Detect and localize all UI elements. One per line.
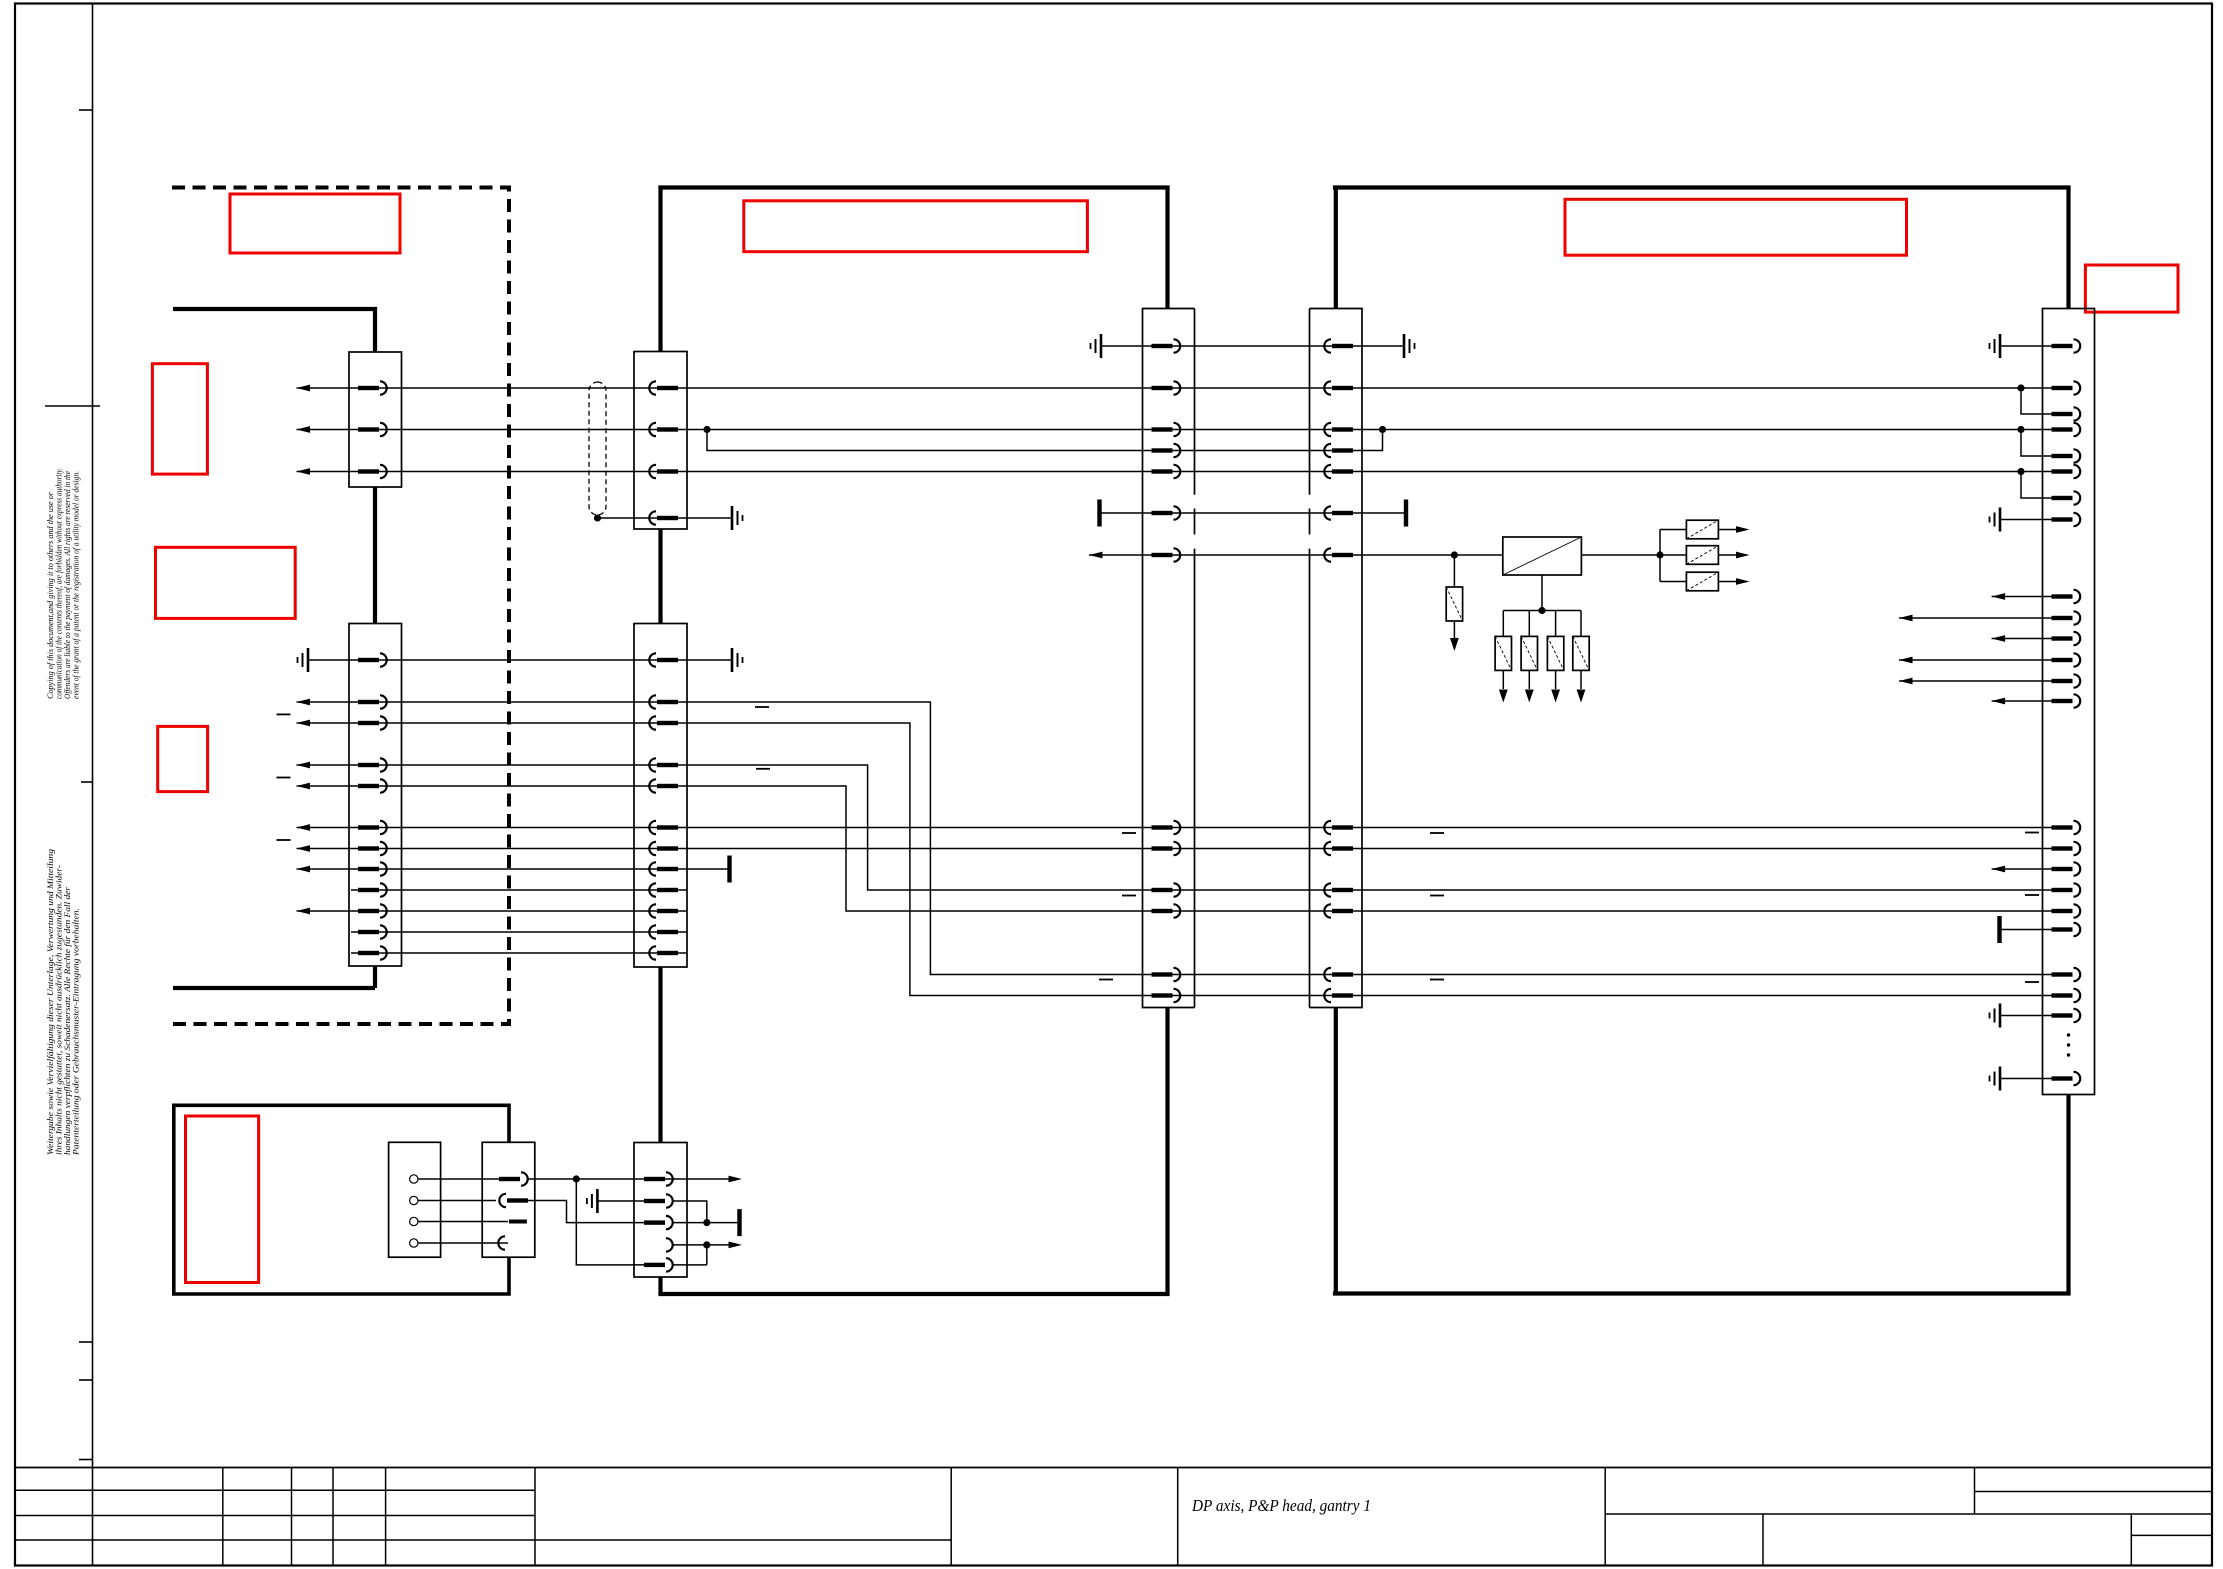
X6 left edge seg 1 bbox=[1309, 309, 1311, 495]
right module left edge seg 1 (into X6) bbox=[1334, 188, 1338, 309]
right module top edge bbox=[1333, 185, 2071, 189]
wire net B (row 429.5) X1-X3-X5-X6-X8 bbox=[297, 429, 2057, 431]
arrow down, F7 output bbox=[1551, 690, 1560, 703]
wire net E: row 723 stepping down to row 995.5 bbox=[297, 723, 2057, 996]
wire X7a pin1 to X7b pin1 (row 1179) bbox=[529, 1178, 738, 1180]
svg-text:event of the grant of a patent: event of the grant of a patent or the re… bbox=[72, 471, 81, 699]
wire net G: row 786 stepping down to row 911 bbox=[297, 786, 2057, 911]
arrow right, F2 output bbox=[1736, 526, 1750, 533]
X8 pin row 429.5 bbox=[2052, 423, 2081, 436]
wire to fuse F4 bbox=[1660, 581, 1686, 583]
title block column divider x291 bbox=[291, 1468, 293, 1566]
wire to fuse F3 bbox=[1660, 554, 1686, 556]
X6 left edge seg 2 bbox=[1309, 509, 1311, 535]
wire row 346 ground link X5-X6 bbox=[1101, 345, 1404, 347]
connector X1 bbox=[349, 352, 402, 487]
X6 pin row 848.5 bbox=[1324, 842, 1353, 855]
X8 pin row 827.5 bbox=[2052, 821, 2081, 834]
wire X8 pin row 869 outgoing bbox=[1992, 868, 2056, 870]
red label box (left device B) bbox=[156, 547, 296, 618]
X7a pin row 1200 bbox=[499, 1194, 528, 1207]
wire down to fuse F6 bbox=[1528, 611, 1530, 637]
X5 pin row 450.5 bbox=[1152, 444, 1181, 457]
wire net I (row 848.5) X2-X4-X5-X6-X8 bbox=[297, 848, 2057, 850]
arrow, X8 row 596 bbox=[1992, 593, 2006, 600]
X6 pin row 429.5 bbox=[1324, 423, 1353, 436]
X1 pin row 388 bbox=[358, 381, 387, 394]
arrow, X8 row 681 bbox=[1899, 678, 1913, 685]
wire below fuse F8 bbox=[1580, 670, 1582, 689]
X7a pin row 1221 (pin without socket arc) bbox=[509, 1220, 527, 1224]
wire terminal 1 to X7a bbox=[418, 1178, 502, 1180]
left device boundary bottom run bbox=[173, 986, 375, 990]
jumper X8 pins row 429 to row 456 bbox=[2021, 430, 2056, 457]
ground, left of X2 row 660 bbox=[298, 648, 309, 672]
X8 pin row 414 bbox=[2052, 407, 2081, 420]
wire net J (row 869) X2-X4 to termination bbox=[297, 868, 729, 870]
wire net D: row 702 stepping down to row 974.5 bbox=[297, 702, 2057, 975]
X5 pin row 827.5 bbox=[1152, 821, 1181, 834]
X8 pin row 388 bbox=[2052, 381, 2081, 394]
shield drain wire to ground (row 518) bbox=[598, 517, 733, 519]
X6 pin row 346 bbox=[1324, 339, 1353, 352]
X6 left edge seg 3 bbox=[1309, 549, 1311, 1008]
ground, X8 row 519 bbox=[1990, 508, 2001, 532]
wire down to fuse F8 bbox=[1580, 611, 1582, 637]
X8 pin row 911 bbox=[2052, 904, 2081, 917]
X4 pin row 786 bbox=[649, 779, 678, 792]
connector X7a bbox=[482, 1142, 535, 1257]
X4 pin row 869 bbox=[649, 862, 678, 875]
wire loop from row 1179 down to X7b pin5 (row 1265) bbox=[576, 1179, 652, 1265]
X1 pin row 429.5 bbox=[358, 423, 387, 436]
frame left column divider bbox=[92, 4, 94, 1566]
X3 pin row 471.5 bbox=[649, 465, 678, 478]
junction X8 jumper row 388 bbox=[2017, 384, 2024, 391]
terminal T1.2 circle bbox=[410, 1196, 418, 1204]
X8 pin row 1015.5 bbox=[2052, 1009, 2081, 1022]
red label box (middle module) bbox=[744, 201, 1088, 252]
wire number label dash at (283.5,777.5) bbox=[277, 777, 291, 779]
wire X7b pin3 to termination bar bbox=[674, 1222, 738, 1224]
wire number label dash at (1106,979.5) bbox=[1099, 979, 1113, 981]
title block column divider x951 bbox=[950, 1468, 952, 1566]
X2 pin row 911 bbox=[358, 904, 387, 917]
svg-text:DP axis, P&P head, gantry 1: DP axis, P&P head, gantry 1 bbox=[1191, 1496, 1371, 1515]
X4 pin row 765 bbox=[649, 758, 678, 771]
X8 pin row 848.5 bbox=[2052, 842, 2081, 855]
title block column divider x222 bbox=[222, 1468, 224, 1566]
junction on net B at x1382 bbox=[1379, 426, 1386, 433]
X6 pin row 513 bbox=[1324, 506, 1353, 519]
red label box (cable W1, top left) bbox=[230, 194, 400, 253]
connector X2 bbox=[349, 624, 402, 967]
X8 pin row 456 bbox=[2052, 449, 2081, 462]
X8 pin row 498 bbox=[2052, 491, 2081, 504]
wire X7b pin5 right side bbox=[674, 1264, 707, 1266]
X8 pin row 618 bbox=[2052, 611, 2081, 624]
X6 pin row 388 bbox=[1324, 381, 1353, 394]
wire net C (row 471.5) X1-X3-X5-X6-X8 bbox=[297, 471, 2057, 473]
title block column divider x333 bbox=[332, 1468, 334, 1566]
title block lower divider x2131 bbox=[2130, 1514, 2132, 1566]
junction row 1222.6 bbox=[703, 1219, 710, 1226]
wire X8 pin row 596 outgoing bbox=[1992, 596, 2056, 598]
right module bottom edge bbox=[1333, 1291, 2071, 1295]
X5 pin row 429.5 bbox=[1152, 423, 1181, 436]
X5 pin row 995.5 bbox=[1152, 989, 1181, 1002]
X8 ellipsis dots (pins omitted) bbox=[2067, 1033, 2070, 1036]
title block right row line a bbox=[1975, 1491, 2213, 1493]
X5 pin row 388 bbox=[1152, 381, 1181, 394]
fuse F6 bbox=[1521, 636, 1537, 670]
X5 pin row 911 bbox=[1152, 904, 1181, 917]
fuse F5 bbox=[1495, 636, 1511, 670]
wire after fuse F2 bbox=[1718, 529, 1736, 531]
X5 pin row 346 bbox=[1152, 339, 1181, 352]
arrow, net H toward left device bbox=[297, 824, 311, 831]
X2 pin row 660 bbox=[358, 653, 387, 666]
wire number label dash at (1437,833) bbox=[1430, 832, 1444, 834]
wire terminal 2 to X7a bbox=[418, 1200, 496, 1202]
wire below fuse F6 bbox=[1528, 670, 1530, 689]
X5 right edge seg 2 bbox=[1194, 509, 1196, 535]
title block right row line c bbox=[2131, 1534, 2212, 1536]
X6 pin row 974.5 bbox=[1324, 968, 1353, 981]
X7b pin row 1245 (socket arc only) bbox=[666, 1238, 673, 1251]
wire X8 pin row 681 outgoing bbox=[1899, 680, 2056, 682]
X2 pin row 869 bbox=[358, 862, 387, 875]
wire below fuse F7 bbox=[1555, 670, 1557, 689]
middle module left edge seg 2 bbox=[658, 529, 662, 624]
X2 pin row 827.5 bbox=[358, 821, 387, 834]
X8 pin row 890 bbox=[2052, 883, 2081, 896]
middle module right edge seg 1 (into X5) bbox=[1165, 188, 1169, 309]
X6 pin row 995.5 bbox=[1324, 989, 1353, 1002]
wire X8 pin row 1078 to ground bbox=[2000, 1078, 2056, 1080]
wire X8 pin row 618 outgoing bbox=[1899, 617, 2056, 619]
fuse F3 bbox=[1686, 546, 1718, 565]
X7b pin row 1201 bbox=[644, 1194, 673, 1207]
X8 pin row 1078.5 bbox=[2052, 1072, 2081, 1085]
arrow, X8 row 701 bbox=[1992, 698, 2006, 705]
arrow, net F toward left device bbox=[297, 762, 311, 769]
title block column divider x535 bbox=[534, 1468, 536, 1566]
title block column divider x385 bbox=[385, 1468, 387, 1566]
wire below fuse F5 bbox=[1502, 670, 1504, 689]
X5 pin row 555 bbox=[1152, 548, 1181, 561]
wire net H (row 827.5) X2-X4-X5-X6-X8 bbox=[297, 827, 2057, 829]
fuse F2 bbox=[1686, 520, 1718, 539]
X6 pin row 450.5 bbox=[1324, 444, 1353, 457]
ground, X7b pin2 bbox=[587, 1189, 598, 1213]
X1 pin row 471.5 bbox=[358, 465, 387, 478]
wire net F: row 765 stepping down to row 890 bbox=[297, 765, 2057, 890]
arrow, X8 row 638 bbox=[1992, 635, 2006, 642]
arrow, supply row 555 toward left bbox=[1089, 552, 1103, 559]
junction row 1245 bbox=[703, 1241, 710, 1248]
X5 pin row 848.5 bbox=[1152, 842, 1181, 855]
title block lower divider x1763 bbox=[1762, 1514, 1764, 1566]
junction X8 jumper row 429 bbox=[2017, 426, 2024, 433]
wire X8 pin row 346 to ground bbox=[2000, 345, 2056, 347]
fuse F8 bbox=[1573, 636, 1589, 670]
wire net B paired branch to X5 pin (row 450.5) bbox=[707, 430, 1174, 451]
X4 pin row 702 bbox=[649, 695, 678, 708]
X3 pin row 429.5 bbox=[649, 423, 678, 436]
fuse F1 bbox=[1446, 587, 1462, 621]
frame reference tick y1459 bbox=[79, 1459, 93, 1461]
wire number label dash at (283.5,714.4) bbox=[277, 714, 291, 716]
arrow right, F3 output bbox=[1736, 552, 1750, 559]
wire down to fuse F1 bbox=[1453, 555, 1455, 587]
X8 pin row 929.5 bbox=[2052, 923, 2081, 936]
connector X5 (box with dashed screen gaps on right edge) bbox=[1143, 309, 1195, 1008]
title block top line bbox=[15, 1467, 2212, 1469]
ground, right of X6 row 346 bbox=[1404, 334, 1415, 358]
right module left edge seg 2 (below X6) bbox=[1334, 1008, 1338, 1294]
frame reference tick y406 bbox=[45, 405, 100, 407]
X7a pin row 1179 bbox=[499, 1172, 528, 1185]
wire row 932 X2-X4 stub bbox=[351, 931, 687, 933]
X8 pin row 701 bbox=[2052, 694, 2081, 707]
fuse F7 bbox=[1547, 636, 1563, 670]
middle module right edge seg 2 (below X5) bbox=[1165, 1008, 1169, 1295]
X8 pin row 974.5 bbox=[2052, 968, 2081, 981]
frame reference tick y110 bbox=[79, 109, 93, 111]
middle module top edge bbox=[658, 185, 1169, 189]
wire below fuse F1 bbox=[1453, 621, 1455, 649]
arrow, net E toward left device bbox=[297, 720, 311, 727]
ground, left of X5 row 346 bbox=[1091, 334, 1102, 358]
termination bar right of X6 row 513 bbox=[1404, 500, 1408, 527]
arrow, net J toward left device bbox=[297, 866, 311, 873]
wire X7b pin2 right side down to row 1222.6 bbox=[674, 1201, 707, 1223]
arrow, net D toward left device bbox=[297, 699, 311, 706]
arrow right, row 1179 output bbox=[729, 1176, 743, 1183]
wire row 890 X2-X4 stub bbox=[351, 889, 687, 891]
connector X4 bbox=[634, 624, 687, 968]
wire down to fuse F7 bbox=[1555, 611, 1557, 637]
wire net A (row 388) X1-X3-X5-X6-X8 bbox=[297, 387, 2057, 389]
X8 pin row 869 bbox=[2052, 862, 2081, 875]
middle module left edge seg 4 bbox=[658, 1277, 662, 1294]
red label box (left device C) bbox=[158, 726, 208, 791]
X3 pin row 518 bbox=[649, 511, 678, 524]
return distribution bus bbox=[1503, 610, 1581, 612]
wire X8 pin row 929 to termination bbox=[2001, 929, 2056, 931]
X5 right edge seg 3 bbox=[1194, 549, 1196, 1008]
middle module left edge seg 3 bbox=[658, 967, 662, 1143]
wire X8 pin row 1015 to ground bbox=[2000, 1015, 2056, 1017]
X8 pin row 519.5 bbox=[2052, 513, 2081, 526]
X4 pin row 660 bbox=[649, 653, 678, 666]
X6 pin row 827.5 bbox=[1324, 821, 1353, 834]
title block row line 3 bbox=[15, 1515, 535, 1517]
title block right row line b bbox=[1605, 1513, 2212, 1515]
wire converter return down bbox=[1541, 575, 1543, 611]
junction supply to fuse F1 bbox=[1451, 551, 1458, 558]
output distribution bus bbox=[1659, 530, 1661, 582]
arrow right, F4 output bbox=[1736, 578, 1750, 585]
title block row line 2 bbox=[15, 1489, 535, 1491]
svg-text:Patenterteilung oder Gebrauchs: Patenterteilung oder Gebrauchsmuster-Ein… bbox=[72, 908, 81, 1156]
arrow down, F5 output bbox=[1499, 690, 1508, 703]
wire number label dash at (762,707) bbox=[755, 706, 769, 708]
wire number label dash at (1437,979.5) bbox=[1430, 979, 1444, 981]
ground, X8 row 1015 bbox=[1990, 1004, 2001, 1028]
ground, X8 row 346 bbox=[1990, 334, 2001, 358]
wire to fuse F2 bbox=[1660, 529, 1686, 531]
X2 pin row 765 bbox=[358, 758, 387, 771]
wire row 660 ground link X2-X4 bbox=[308, 659, 732, 661]
X4 pin row 911 bbox=[649, 904, 678, 917]
wire X7b pin4 to arrow (row 1245) bbox=[674, 1244, 738, 1246]
termination bar X8 row 929 bbox=[1997, 916, 2001, 943]
right module right edge seg 1 (into X8) bbox=[2066, 188, 2070, 309]
terminal block T1 (bottom module) bbox=[389, 1142, 441, 1257]
termination bar left of X5 row 513 bbox=[1097, 500, 1101, 527]
connector X7b bbox=[634, 1143, 687, 1278]
wire down to fuse F5 bbox=[1502, 611, 1504, 637]
connector X3 bbox=[634, 352, 687, 530]
X8 pin row 638.5 bbox=[2052, 632, 2081, 645]
X7a pin row 1243 (socket arc only) bbox=[498, 1236, 505, 1249]
arrow, net B toward left device bbox=[297, 426, 311, 433]
frame reference tick y1380 bbox=[79, 1379, 93, 1381]
arrow, X8 row 618 bbox=[1899, 615, 1913, 622]
termination bar row 1222.6 bbox=[737, 1209, 741, 1236]
wire number label dash at (2032,895) bbox=[2025, 894, 2039, 896]
X6 pin row 471.5 bbox=[1324, 465, 1353, 478]
wire number label dash at (763,768.8) bbox=[756, 768, 770, 770]
wire supply row 555 through X5-X6 to converter bbox=[1089, 554, 1503, 556]
X2 pin row 953 bbox=[358, 946, 387, 959]
title block right upper divider bbox=[1974, 1468, 1976, 1515]
wire number label dash at (1129,895.5) bbox=[1122, 895, 1136, 897]
termination bar right of X4 row 869 bbox=[727, 856, 731, 883]
X4 pin row 848.5 bbox=[649, 842, 678, 855]
wire row 911 X2-X4 bbox=[297, 910, 687, 912]
wire number label dash at (2032,832.5) bbox=[2025, 832, 2039, 834]
wire row 450.5 between X5 and X6 bbox=[1174, 450, 1330, 452]
X5 pin row 471.5 bbox=[1152, 465, 1181, 478]
terminal T1.1 circle bbox=[410, 1175, 418, 1183]
wire number label dash at (1129,833) bbox=[1122, 832, 1136, 834]
arrow down, F8 output bbox=[1577, 690, 1586, 703]
jumper X8 pins row 471 to row 498 bbox=[2021, 472, 2056, 499]
X4 pin row 932 bbox=[649, 925, 678, 938]
frame reference tick y1342 bbox=[79, 1341, 93, 1343]
dashed cable boundary box (left cable screen) bbox=[172, 188, 509, 1025]
wire terminal 4 to X7a bbox=[418, 1242, 508, 1244]
X2 pin row 723 bbox=[358, 716, 387, 729]
X7b pin row 1222 bbox=[644, 1216, 673, 1229]
X8 pin row 471.5 bbox=[2052, 465, 2081, 478]
X2 pin row 932 bbox=[358, 925, 387, 938]
left device boundary segment through connectors bbox=[373, 487, 377, 624]
wire converter output row 555 bbox=[1581, 554, 1660, 556]
left device boundary bracket (thick) bbox=[173, 309, 375, 352]
arrow, X8 row 869 bbox=[1992, 866, 2006, 873]
right module right edge seg 2 (below X8) bbox=[2066, 1095, 2070, 1294]
left device boundary segment below X2 bbox=[373, 966, 377, 988]
wire after fuse F4 bbox=[1718, 581, 1736, 583]
arrow down, F1 output bbox=[1450, 638, 1459, 651]
wire ground to X7b pin2 (row 1201) bbox=[597, 1200, 652, 1202]
X8 pin row 681 bbox=[2052, 674, 2081, 687]
wire X8 pin row 519 to ground bbox=[2000, 519, 2056, 521]
X2 pin row 702 bbox=[358, 695, 387, 708]
title block row line 4 bbox=[15, 1539, 951, 1541]
ground, shield drain bbox=[732, 506, 743, 530]
X4 pin row 723 bbox=[649, 716, 678, 729]
X2 pin row 890 bbox=[358, 883, 387, 896]
X7b pin row 1179 bbox=[644, 1172, 673, 1185]
wire row 513 terminated both sides X5-X6 bbox=[1100, 512, 1407, 514]
middle module left edge seg 1 bbox=[658, 188, 662, 352]
red label box (bottom module) bbox=[186, 1116, 259, 1283]
wire terminal 3 to X7a bbox=[418, 1221, 508, 1223]
arrow, net G toward left device bbox=[297, 783, 311, 790]
wire link row 1245 to row 1265 bbox=[706, 1245, 708, 1265]
ground, right of X4 row 660 bbox=[732, 648, 743, 672]
ground, X8 row 1078 bbox=[1990, 1067, 2001, 1091]
red label box (connector X8) bbox=[2085, 265, 2178, 312]
arrow, row 911 toward left device bbox=[297, 908, 311, 915]
arrow right, row 1245 output bbox=[729, 1242, 743, 1249]
wire net B paired branch to X6 pin (row 450.5) bbox=[1330, 430, 1383, 451]
X8 pin row 660 bbox=[2052, 653, 2081, 666]
junction on net B at x707 bbox=[703, 426, 710, 433]
wire number label dash at (283.5,840) bbox=[277, 839, 291, 841]
bottom-left module enclosure (thick outline) bbox=[174, 1105, 509, 1294]
middle module bottom edge bbox=[658, 1292, 1169, 1296]
terminal T1.3 circle bbox=[410, 1217, 418, 1225]
junction row 1179 bbox=[573, 1175, 580, 1182]
connector X8 bbox=[2043, 309, 2095, 1095]
wire X8 pin row 660 outgoing bbox=[1899, 659, 2056, 661]
X4 pin row 953 bbox=[649, 946, 678, 959]
wire X7a pin2 stepping down to X7b pin3 (row 1222.6) bbox=[525, 1201, 652, 1223]
fuse F4 bbox=[1686, 572, 1718, 591]
X6 pin row 555 bbox=[1324, 548, 1353, 561]
connector X6 (box with dashed screen gaps on left edge) bbox=[1310, 309, 1363, 1008]
wire X8 pin row 701 outgoing bbox=[1992, 700, 2056, 702]
wire number label dash at (1437,895.5) bbox=[1430, 895, 1444, 897]
X6 pin row 911 bbox=[1324, 904, 1353, 917]
X4 pin row 827.5 bbox=[649, 821, 678, 834]
title block column divider x1605 bbox=[1604, 1468, 1606, 1566]
wire row 953 X2-X4 stub bbox=[351, 952, 687, 954]
X6 pin row 890 bbox=[1324, 883, 1353, 896]
X5 pin row 974.5 bbox=[1152, 968, 1181, 981]
title block column divider x1177 bbox=[1177, 1468, 1179, 1566]
arrow, net A toward left device bbox=[297, 385, 311, 392]
wire X8 pin row 638 outgoing bbox=[1992, 638, 2056, 640]
arrow, X8 row 660 bbox=[1899, 657, 1913, 664]
X4 pin row 890 bbox=[649, 883, 678, 896]
frame reference tick y782 bbox=[81, 781, 93, 783]
red label box (left device A) bbox=[152, 364, 207, 474]
X3 pin row 388 bbox=[649, 381, 678, 394]
arrow down, F6 output bbox=[1525, 690, 1534, 703]
X8 pin row 596.5 bbox=[2052, 590, 2081, 603]
junction converter output bbox=[1656, 551, 1663, 558]
cable shield symbol (dashed capsule) bbox=[589, 382, 606, 515]
X7b pin row 1264 bbox=[644, 1258, 673, 1271]
X5 pin row 890 bbox=[1152, 883, 1181, 896]
